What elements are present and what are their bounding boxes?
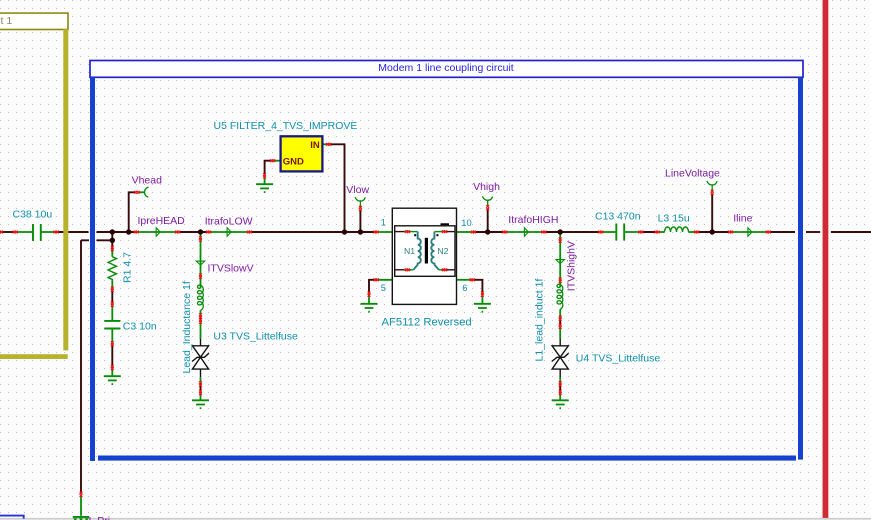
winding N2 (431, 232, 439, 270)
polarity dots (414, 234, 416, 236)
wire U4 TVS top lead (559, 326, 561, 339)
svg-text:t 1: t 1 (1, 15, 13, 27)
wire U3 coil bottom stub (200, 310, 202, 316)
inductor L3 (665, 227, 689, 232)
node U5 IN tap (342, 229, 347, 234)
Modem 1 block bottom border bar (98, 456, 796, 461)
wire L3 right lead (689, 231, 697, 233)
wire R1 to C3 (111, 289, 113, 304)
wire IpreHEAD to ItrafoLOW (178, 231, 209, 233)
component box U5 FILTER_4_TVS_IMPROVE (281, 136, 323, 171)
hatched ground at bottom net (73, 516, 89, 520)
wire U3 branch upper (200, 232, 202, 288)
wire U5 GND stub (273, 160, 281, 162)
svg-text:L1_lead_induct 1f: L1_lead_induct 1f (534, 279, 546, 362)
svg-text:U4 TVS_Littelfuse: U4 TVS_Littelfuse (576, 352, 661, 364)
block t1 left border bar (olive vertical) (63, 29, 68, 350)
wire U3 TVS to ground segment (200, 384, 202, 392)
wire U5 IN pin to main net (331, 144, 345, 232)
voltage pin Vhigh (482, 196, 492, 206)
wire long vertical to bottom (80, 240, 82, 493)
pin x marks (0, 143, 771, 497)
wire transformer pin 6 to ground (472, 280, 482, 294)
svg-text:Vhigh: Vhigh (473, 181, 500, 193)
wire Vhead riser (129, 192, 135, 232)
inductor Lead_Inductance (U3 branch) (198, 285, 204, 310)
internal wires (395, 232, 455, 270)
svg-text:C13 470n: C13 470n (595, 210, 641, 222)
voltage pin Vlow (355, 197, 365, 207)
current arrow ItrafoHIGH (524, 228, 528, 236)
wire ItrafoLOW to transformer pin 1 (250, 231, 377, 233)
svg-text:C38 10u: C38 10u (13, 209, 53, 221)
wire C38 to block edge (56, 231, 89, 233)
svg-text:R1 4.7: R1 4.7 (122, 252, 134, 283)
wire U3 TVS bottom lead (200, 377, 202, 384)
node U4 tap (558, 229, 563, 234)
wire C38 right lead (42, 231, 57, 233)
wire ItrafoHIGH segment (505, 231, 544, 233)
wire C38 left lead (15, 231, 32, 233)
svg-text:Iline: Iline (733, 213, 752, 225)
ground below U4 (552, 400, 569, 408)
wire node A stub down (111, 232, 113, 249)
polarity dash (441, 223, 450, 225)
Modem 1 block right border bar (798, 77, 803, 459)
transformer AF5112 box (392, 208, 456, 304)
current arrow ITVSlowV (196, 261, 204, 265)
svg-text:10: 10 (461, 218, 471, 228)
svg-text:U3 TVS_Littelfuse: U3 TVS_Littelfuse (213, 331, 298, 343)
wire C3 bottom lead (111, 329, 113, 344)
wire U4 ground stem (559, 392, 561, 400)
Modem 1 block title bar (90, 61, 803, 78)
junction dots (110, 229, 715, 243)
wire C13 to L3 (641, 231, 657, 233)
wire transformer pin 10 lead (457, 231, 473, 233)
wire IpreHEAD segment (136, 231, 177, 233)
red page boundary line (822, 0, 829, 520)
wire R1 bottom lead (111, 280, 113, 289)
Modem 1 block left border bar (90, 77, 95, 461)
svg-text:IpreHEAD: IpreHEAD (138, 215, 186, 227)
wire transformer pin 10 to ItrafoHIGH (472, 231, 505, 233)
wire ItrafoLOW segment (209, 231, 250, 233)
wire C3 to ground (111, 344, 113, 368)
ground below U3 (192, 400, 209, 408)
ground below U5 GND (256, 184, 273, 192)
block t1 title box (olive, clipped left) (0, 13, 68, 29)
core (425, 238, 428, 264)
svg-text:Modem 1 line coupling circuit: Modem 1 line coupling circuit (378, 62, 513, 74)
wire ItrafoHIGH to C13 (544, 231, 601, 233)
wire R1 top lead (111, 249, 113, 257)
ground below transformer pin 6 (474, 304, 491, 312)
wire U3 TVS top lead (200, 321, 202, 339)
wire C3 top lead (111, 304, 113, 321)
wire transformer pin 5 to ground (369, 280, 376, 294)
inductor L1_lead_induct (U4 branch) (557, 284, 563, 309)
wire block edge to node A (97, 231, 137, 233)
svg-text:ITVShighV: ITVShighV (566, 241, 578, 291)
wire transformer pin 6 lead (457, 279, 473, 281)
wire U4 coil to TVS (559, 318, 561, 326)
svg-text:AF5112 Reversed: AF5112 Reversed (382, 316, 472, 328)
ground below transformer pin 5 (361, 304, 378, 312)
wire U4 TVS bottom lead (559, 377, 561, 384)
wire U3 ground stem (200, 392, 202, 400)
node U3 tap (198, 229, 203, 234)
svg-text:GND: GND (283, 156, 304, 167)
voltage pin LineVoltage (707, 181, 717, 191)
wire Iline segment (731, 231, 769, 233)
wire U4 branch upper (559, 232, 561, 287)
svg-text:Lead_Inductance 1f: Lead_Inductance 1f (181, 281, 193, 373)
wire C13 left lead (601, 231, 617, 233)
node main-A lower (110, 238, 115, 243)
svg-text:N1: N1 (404, 246, 415, 256)
svg-text:Vlow: Vlow (346, 184, 369, 196)
current arrow Iline (748, 228, 752, 236)
wire transformer right ground stem (481, 294, 483, 304)
wire U4 coil bottom stub (559, 310, 561, 319)
TVS diode U4 (552, 339, 569, 377)
wire Vhead probe lead (139, 191, 145, 193)
svg-text:ItrafoHIGH: ItrafoHIGH (508, 214, 558, 226)
wire right of red line (831, 231, 871, 233)
ground below C3 (104, 376, 121, 384)
wire Vlow riser (359, 210, 361, 232)
resistor R1 (108, 257, 116, 281)
current arrow ITVShighV (556, 260, 564, 264)
svg-text:L3 15u: L3 15u (658, 212, 690, 224)
current arrow IpreHEAD (156, 228, 160, 236)
wire bottom net stem (80, 496, 82, 516)
node LineVoltage tap (710, 229, 715, 234)
svg-text:LineVoltage: LineVoltage (665, 167, 720, 179)
wire between block edge and red line (806, 231, 820, 233)
svg-text:6: 6 (462, 283, 467, 293)
TVS diode U3 (192, 339, 209, 377)
wire Iline to block right edge (768, 231, 795, 233)
wire L3 left lead (657, 231, 665, 233)
svg-text:5: 5 (381, 283, 386, 293)
wire lower branch horizontal (81, 239, 112, 241)
wire U4 TVS to ground segment (559, 384, 561, 392)
node Vhead tap (126, 229, 131, 234)
bottom status strip (0, 518, 871, 520)
node Vhigh tap (485, 229, 490, 234)
lower block title box corner (blue) (0, 516, 24, 519)
wire Vhigh riser (487, 209, 489, 232)
wire U5 GND pin to ground (265, 161, 273, 176)
capacitor C38 (33, 224, 41, 241)
wire C13 right lead (624, 231, 641, 233)
wire U3 coil to TVS (200, 316, 202, 321)
wire LineVoltage riser (711, 194, 713, 232)
wire U5 ground stem (264, 176, 266, 184)
capacitor C3 (104, 321, 120, 329)
svg-text:N2: N2 (437, 246, 448, 256)
block t1 bottom border bar (olive horizontal) (0, 354, 68, 359)
wire C3 ground stem (111, 368, 113, 377)
svg-text:U5 FILTER_4_TVS_IMPROVE: U5 FILTER_4_TVS_IMPROVE (214, 120, 358, 132)
wire transformer pin 5 lead (376, 279, 392, 281)
voltage pin Vhead (138, 187, 148, 197)
svg-text:1: 1 (381, 217, 386, 227)
wire U5 IN stub (322, 143, 330, 145)
node main-A (110, 229, 115, 234)
wire L3 to Iline node (697, 231, 731, 233)
current arrow ItrafoLOW (227, 228, 231, 236)
svg-text:I_Pri: I_Pri (89, 515, 111, 520)
capacitor C13 (616, 224, 624, 241)
svg-text:ITVSlowV: ITVSlowV (208, 263, 254, 275)
wire main net left edge (0, 231, 15, 233)
svg-text:C3 10n: C3 10n (123, 321, 157, 333)
wire transformer pin 1 lead (376, 231, 392, 233)
svg-text:Vhead: Vhead (132, 175, 163, 187)
svg-text:ItrafoLOW: ItrafoLOW (205, 215, 253, 227)
node Vlow tap (358, 229, 363, 234)
winding N1 (413, 232, 420, 270)
svg-text:IN: IN (310, 140, 320, 151)
wire transformer left ground stem (368, 294, 370, 304)
